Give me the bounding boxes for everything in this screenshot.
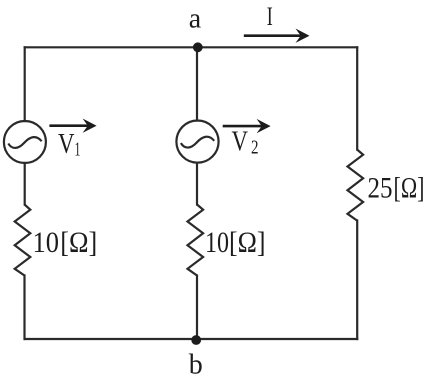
wire middle branch middle: [196, 163, 198, 205]
svg-text:2: 2: [251, 137, 259, 159]
voltage source V2: [176, 121, 218, 163]
wire left branch lower: [23, 276, 25, 340]
junction node b (dot): [191, 335, 201, 345]
wire top (node a rail): [25, 46, 358, 48]
svg-text:I: I: [267, 2, 273, 31]
resistor R3 25Ω (right): [348, 150, 364, 221]
svg-text:10: 10: [33, 226, 60, 259]
current arrow I: [244, 29, 310, 43]
svg-text:a: a: [189, 3, 202, 34]
wire middle branch upper: [196, 47, 198, 120]
svg-text:1: 1: [75, 139, 81, 161]
arrow V2: [223, 119, 271, 133]
svg-text:V: V: [232, 127, 249, 158]
svg-text:V: V: [58, 129, 75, 160]
resistor R2 10Ω (middle): [188, 205, 204, 276]
wire bottom (node b rail): [25, 338, 358, 340]
value label 10 [Ω] (middle): [205, 226, 266, 259]
junction node a (dot): [193, 42, 203, 52]
wire left branch middle: [24, 163, 26, 205]
svg-text:[Ω]: [Ω]: [229, 226, 266, 259]
svg-text:[Ω]: [Ω]: [60, 226, 97, 259]
svg-text:25: 25: [368, 171, 393, 204]
svg-text:b: b: [189, 350, 203, 380]
wire left branch upper: [24, 47, 26, 121]
value label 10 [Ω] (left): [33, 226, 98, 259]
arrow V1: [49, 119, 96, 133]
svg-text:10: 10: [205, 226, 229, 259]
svg-text:[Ω]: [Ω]: [394, 171, 425, 204]
wire right branch lower: [356, 221, 358, 340]
value label 25 [Ω] (right): [368, 171, 425, 204]
wire middle branch lower: [196, 276, 198, 340]
resistor R1 10Ω (left): [15, 205, 31, 276]
wire right branch upper: [356, 47, 358, 149]
voltage source V1: [4, 121, 46, 163]
